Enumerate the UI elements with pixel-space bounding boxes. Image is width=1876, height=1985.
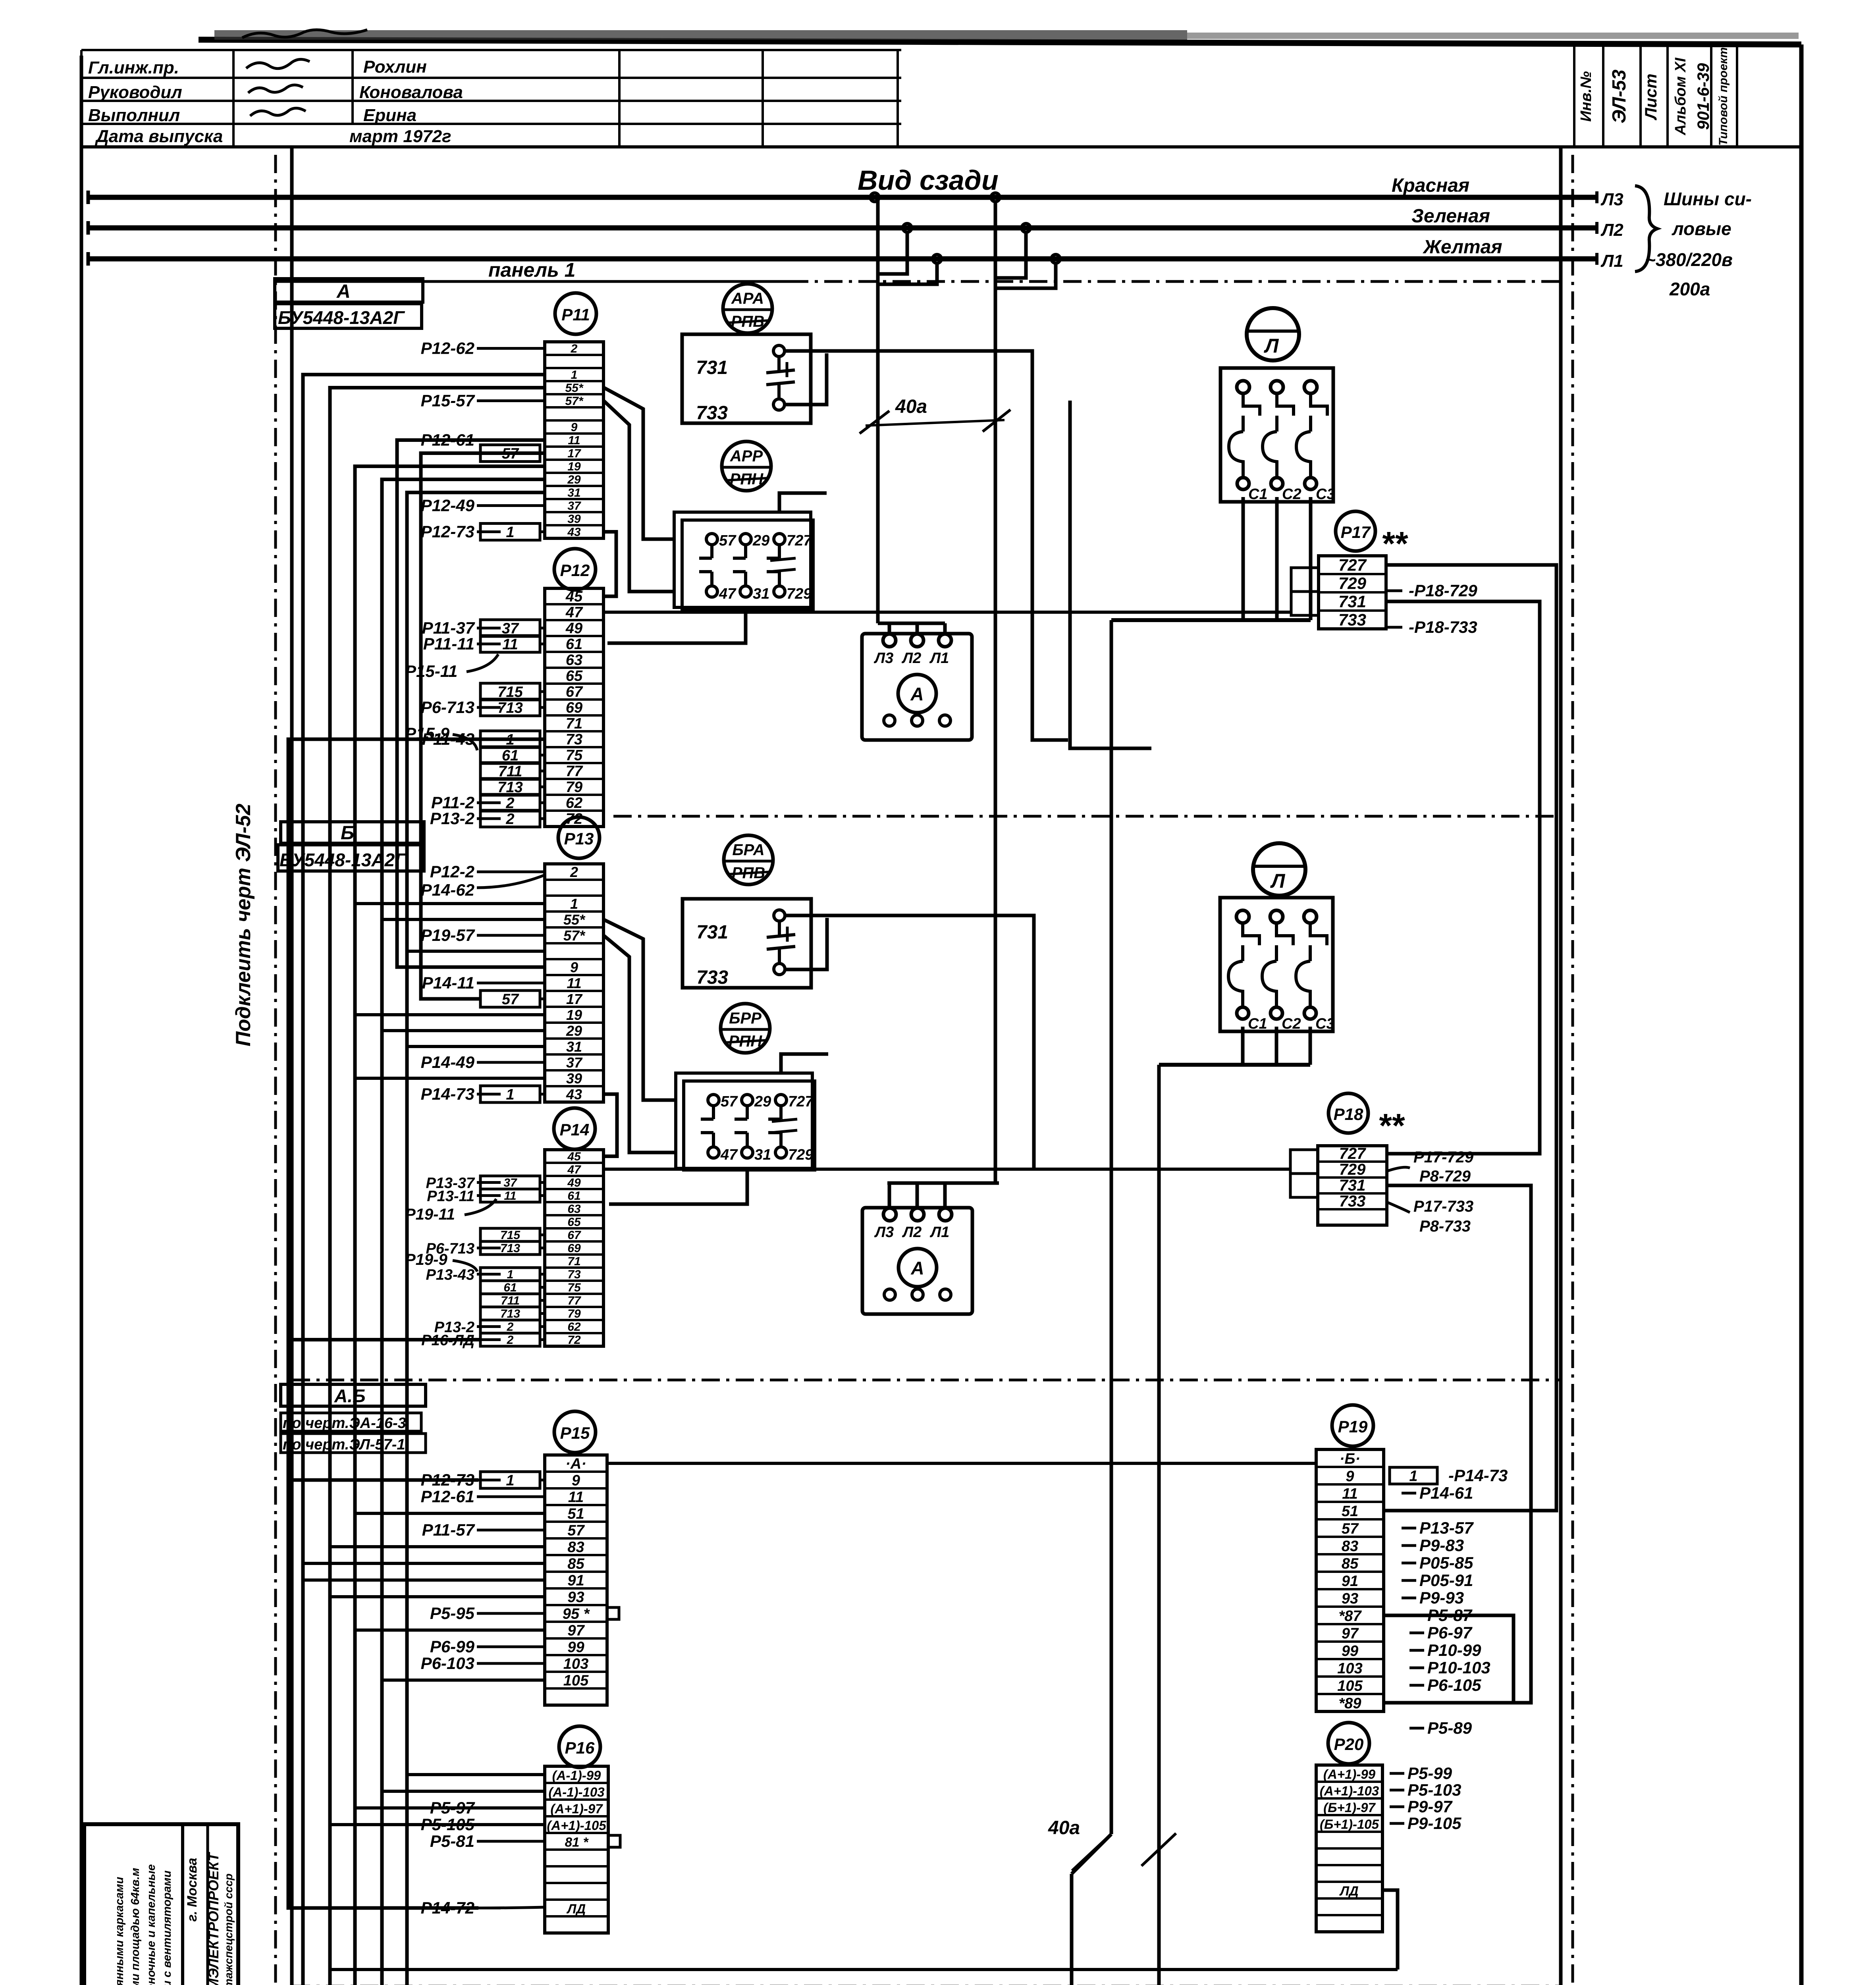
svg-text:901-6-39: 901-6-39 — [1694, 63, 1712, 130]
svg-text:Подклеить черт ЭЛ-52: Подклеить черт ЭЛ-52 — [232, 804, 255, 1046]
svg-text:Р16: Р16 — [565, 1738, 595, 1757]
svg-text:(Б+1)-105: (Б+1)-105 — [1320, 1817, 1379, 1831]
svg-text:Градирни с вентиляторами: Градирни с вентиляторами — [161, 1870, 174, 1985]
svg-text:Зеленая: Зеленая — [1411, 206, 1490, 227]
svg-text:103: 103 — [1337, 1660, 1362, 1677]
svg-text:715: 715 — [500, 1229, 521, 1242]
svg-text:1в-25. Пленочные и капельные: 1в-25. Пленочные и капельные — [145, 1864, 158, 1985]
svg-text:73: 73 — [567, 1268, 581, 1281]
svg-text:40а: 40а — [1048, 1817, 1080, 1839]
svg-text:85: 85 — [1342, 1555, 1359, 1572]
svg-text:Р19-11: Р19-11 — [405, 1206, 455, 1223]
svg-text:47: 47 — [565, 604, 583, 621]
svg-text:9: 9 — [570, 959, 578, 975]
svg-text:Р17-729: Р17-729 — [1413, 1149, 1474, 1166]
svg-text:Р6-103: Р6-103 — [421, 1654, 474, 1673]
svg-text:БРР: БРР — [729, 1010, 762, 1027]
svg-text:С3: С3 — [1315, 1016, 1335, 1032]
svg-text:Р13: Р13 — [564, 829, 594, 848]
svg-text:61: 61 — [503, 1281, 517, 1294]
svg-text:(А-1)-103: (А-1)-103 — [548, 1785, 604, 1799]
svg-text:(Б+1)-97: (Б+1)-97 — [1323, 1800, 1376, 1815]
svg-text:40а: 40а — [895, 396, 927, 417]
svg-text:ЛД: ЛД — [1339, 1883, 1359, 1898]
svg-text:Л2: Л2 — [902, 1224, 922, 1241]
svg-text:Красная: Красная — [1392, 175, 1469, 196]
svg-text:91: 91 — [567, 1572, 584, 1589]
svg-text:Б: Б — [341, 823, 354, 844]
svg-text:9: 9 — [571, 421, 578, 434]
svg-text:29: 29 — [752, 532, 769, 549]
svg-text:61: 61 — [566, 636, 582, 653]
svg-text:Альбом XI: Альбом XI — [1672, 57, 1689, 135]
svg-text:713: 713 — [500, 1307, 520, 1320]
svg-text:79: 79 — [566, 779, 582, 796]
svg-text:с секциями площадью 64кв.м: с секциями площадью 64кв.м — [129, 1868, 142, 1985]
svg-text:Р14: Р14 — [560, 1120, 590, 1139]
svg-text:(А-1)-99: (А-1)-99 — [552, 1768, 601, 1783]
svg-text:ЭЛ-53: ЭЛ-53 — [1609, 69, 1630, 123]
svg-text:47: 47 — [567, 1163, 581, 1176]
svg-text:Р05-91: Р05-91 — [1419, 1571, 1473, 1590]
svg-text:63: 63 — [567, 1203, 581, 1216]
svg-text:55*: 55* — [565, 382, 583, 395]
svg-text:март 1972г: март 1972г — [349, 127, 451, 146]
svg-text:Р5-103: Р5-103 — [1407, 1781, 1461, 1799]
svg-text:(А+1)-103: (А+1)-103 — [1320, 1783, 1379, 1798]
svg-text:Р05-85: Р05-85 — [1419, 1553, 1473, 1572]
svg-text:51: 51 — [1342, 1503, 1358, 1520]
svg-text:Р14-49: Р14-49 — [421, 1053, 475, 1072]
svg-text:729: 729 — [1339, 1161, 1366, 1178]
svg-text:91: 91 — [1342, 1573, 1358, 1590]
svg-text:71: 71 — [567, 1255, 580, 1268]
svg-text:Р15-11: Р15-11 — [405, 662, 457, 680]
svg-text:Р15-57: Р15-57 — [421, 391, 475, 410]
svg-text:~380/220в: ~380/220в — [1645, 249, 1733, 270]
svg-text:97: 97 — [567, 1622, 585, 1639]
svg-text:Л: Л — [1270, 870, 1286, 892]
svg-text:105: 105 — [1337, 1678, 1363, 1694]
svg-text:Р14-73: Р14-73 — [421, 1085, 474, 1103]
svg-text:37: 37 — [567, 499, 581, 513]
svg-text:ловые: ловые — [1672, 218, 1731, 239]
svg-text:·А·: ·А· — [565, 1455, 586, 1472]
svg-text:Р12: Р12 — [560, 561, 590, 580]
svg-text:Р17-733: Р17-733 — [1413, 1198, 1473, 1215]
svg-text:85: 85 — [567, 1555, 584, 1572]
svg-text:105: 105 — [563, 1672, 589, 1689]
svg-text:11: 11 — [1342, 1486, 1357, 1502]
svg-text:Р14-61: Р14-61 — [1419, 1484, 1473, 1502]
svg-text:733: 733 — [1339, 1193, 1366, 1210]
svg-text:С1: С1 — [1248, 486, 1268, 503]
svg-text:(А+1)-97: (А+1)-97 — [550, 1801, 603, 1816]
svg-text:713: 713 — [500, 1242, 520, 1255]
svg-text:1: 1 — [506, 524, 514, 541]
svg-text:Лист: Лист — [1641, 73, 1660, 120]
svg-text:11: 11 — [568, 1489, 584, 1505]
svg-text:Р5-81: Р5-81 — [430, 1832, 474, 1850]
svg-text:-Р14-73: -Р14-73 — [1448, 1466, 1508, 1485]
svg-text:А: А — [336, 281, 351, 302]
svg-text:Р11: Р11 — [561, 305, 590, 324]
svg-text:Р12-49: Р12-49 — [421, 496, 475, 515]
svg-text:29: 29 — [566, 1023, 582, 1039]
svg-text:Шины си-: Шины си- — [1664, 189, 1752, 209]
svg-text:С1: С1 — [1248, 1016, 1267, 1032]
svg-text:713: 713 — [497, 700, 523, 716]
svg-text:Р6-99: Р6-99 — [430, 1637, 475, 1656]
svg-text:Ерина: Ерина — [363, 106, 416, 125]
svg-text:(А+1)-99: (А+1)-99 — [1323, 1767, 1376, 1781]
svg-text:61: 61 — [567, 1189, 580, 1203]
svg-text:43: 43 — [567, 526, 581, 539]
svg-text:С2: С2 — [1282, 1016, 1301, 1032]
svg-text:69: 69 — [566, 700, 582, 716]
svg-text:727: 727 — [787, 532, 812, 549]
svg-text:711: 711 — [501, 1294, 520, 1307]
svg-text:43: 43 — [566, 1086, 582, 1102]
svg-text:31: 31 — [753, 586, 769, 602]
svg-text:39: 39 — [567, 513, 581, 526]
svg-text:Р11-11: Р11-11 — [423, 634, 474, 653]
svg-text:Рохлин: Рохлин — [363, 57, 427, 77]
svg-text:65: 65 — [566, 668, 583, 684]
svg-text:51: 51 — [567, 1505, 584, 1522]
svg-text:Р12-62: Р12-62 — [421, 339, 474, 358]
svg-text:62: 62 — [567, 1320, 581, 1334]
svg-text:2: 2 — [505, 811, 514, 827]
svg-text:731: 731 — [1338, 592, 1366, 611]
svg-text:Л2: Л2 — [1600, 220, 1623, 240]
svg-text:(А+1)-105: (А+1)-105 — [547, 1818, 606, 1833]
svg-text:62: 62 — [566, 795, 582, 811]
svg-text:11: 11 — [567, 975, 581, 991]
svg-text:БУ5448-13А2Г: БУ5448-13А2Г — [280, 850, 407, 870]
svg-text:39: 39 — [566, 1070, 582, 1087]
svg-text:Р15: Р15 — [560, 1424, 590, 1442]
svg-text:С2: С2 — [1282, 486, 1301, 503]
svg-text:1: 1 — [506, 1472, 514, 1489]
svg-text:Выполнил: Выполнил — [88, 106, 180, 125]
svg-text:-Р18-733: -Р18-733 — [1409, 618, 1477, 636]
svg-text:57: 57 — [721, 1093, 738, 1110]
svg-text:72: 72 — [567, 1334, 581, 1347]
svg-text:31: 31 — [754, 1147, 771, 1163]
svg-text:Р12-2: Р12-2 — [430, 862, 474, 881]
svg-text:733: 733 — [696, 403, 728, 424]
svg-text:31: 31 — [567, 486, 580, 499]
svg-text:1: 1 — [506, 1086, 514, 1103]
svg-text:2: 2 — [507, 1334, 514, 1347]
svg-text:65: 65 — [567, 1216, 581, 1229]
svg-text:9: 9 — [1346, 1468, 1354, 1485]
svg-text:45: 45 — [567, 1150, 581, 1163]
svg-text:97: 97 — [1342, 1625, 1359, 1642]
svg-text:77: 77 — [566, 763, 583, 780]
svg-text:731: 731 — [696, 357, 728, 378]
svg-text:*87: *87 — [1338, 1608, 1362, 1625]
svg-text:729: 729 — [788, 1147, 813, 1163]
svg-text:Р19-9: Р19-9 — [405, 1251, 447, 1268]
svg-text:Р12-73: Р12-73 — [421, 522, 474, 541]
svg-text:57: 57 — [719, 532, 737, 549]
svg-text:Р10-103: Р10-103 — [1427, 1658, 1490, 1677]
svg-text:79: 79 — [567, 1307, 581, 1320]
svg-text:БРА: БРА — [732, 841, 764, 859]
svg-text:Р10-99: Р10-99 — [1427, 1641, 1481, 1659]
svg-text:29: 29 — [567, 473, 581, 486]
svg-text:Р6-713: Р6-713 — [421, 698, 474, 717]
svg-text:9: 9 — [572, 1472, 580, 1489]
svg-text:2: 2 — [571, 342, 578, 355]
svg-text:95 *: 95 * — [563, 1605, 590, 1622]
svg-text:Дата выпуска: Дата выпуска — [94, 127, 223, 146]
svg-text:69: 69 — [567, 1242, 581, 1255]
svg-text:Р12-61: Р12-61 — [421, 1487, 474, 1506]
svg-text:81 *: 81 * — [565, 1835, 589, 1849]
svg-text:83: 83 — [567, 1539, 584, 1555]
svg-text:2: 2 — [507, 1320, 514, 1334]
svg-text:63: 63 — [566, 652, 582, 669]
svg-text:57: 57 — [1342, 1521, 1359, 1537]
svg-text:731: 731 — [1339, 1177, 1366, 1194]
svg-text:Р13-2: Р13-2 — [430, 809, 474, 828]
svg-text:45: 45 — [565, 588, 583, 605]
svg-text:Р8-729: Р8-729 — [1419, 1168, 1471, 1185]
svg-text:Л3: Л3 — [874, 1224, 894, 1241]
svg-text:77: 77 — [567, 1294, 581, 1307]
svg-text:Минмонтажспецстрой ссср: Минмонтажспецстрой ссср — [222, 1873, 235, 1985]
svg-text:11: 11 — [504, 1189, 516, 1203]
svg-text:1: 1 — [507, 1268, 514, 1281]
svg-text:Р19-57: Р19-57 — [421, 926, 475, 944]
svg-text:АРР: АРР — [730, 447, 763, 465]
svg-text:75: 75 — [566, 747, 583, 764]
svg-text:АРА: АРА — [731, 290, 764, 307]
svg-text:37: 37 — [503, 1176, 517, 1189]
svg-text:Р17: Р17 — [1341, 523, 1371, 542]
svg-text:Р5-89: Р5-89 — [1427, 1719, 1472, 1737]
svg-text:Р6-105: Р6-105 — [1427, 1676, 1481, 1694]
svg-text:57*: 57* — [565, 395, 583, 408]
svg-text:49: 49 — [565, 620, 582, 637]
svg-text:Л3: Л3 — [873, 650, 893, 667]
svg-text:Р11-57: Р11-57 — [422, 1521, 475, 1539]
svg-text:Л1: Л1 — [929, 650, 949, 667]
svg-text:67: 67 — [566, 684, 583, 700]
svg-text:17: 17 — [566, 991, 583, 1007]
svg-text:Желтая: Желтая — [1422, 237, 1502, 258]
svg-text:с деревянными каркасами: с деревянными каркасами — [113, 1877, 126, 1985]
svg-text:Р20: Р20 — [1334, 1735, 1364, 1754]
svg-text:729: 729 — [787, 586, 812, 602]
svg-text:57: 57 — [502, 991, 519, 1008]
svg-text:Л1: Л1 — [1600, 251, 1623, 271]
svg-text:93: 93 — [567, 1589, 584, 1605]
svg-text:200а: 200а — [1669, 279, 1710, 299]
svg-text:Р14-62: Р14-62 — [421, 881, 474, 899]
svg-text:Р13-11: Р13-11 — [427, 1188, 474, 1205]
svg-text:·Б·: ·Б· — [1340, 1451, 1360, 1467]
svg-text:103: 103 — [563, 1655, 588, 1672]
svg-text:Р5-99: Р5-99 — [1407, 1764, 1452, 1783]
svg-text:Р9-105: Р9-105 — [1407, 1814, 1461, 1833]
svg-text:Р13-57: Р13-57 — [1419, 1519, 1474, 1537]
svg-text:-Р18-729: -Р18-729 — [1409, 581, 1477, 600]
svg-text:Р9-83: Р9-83 — [1419, 1536, 1464, 1555]
svg-text:Л3: Л3 — [1600, 190, 1623, 209]
svg-text:Инв.№: Инв.№ — [1578, 71, 1595, 121]
svg-text:Р18: Р18 — [1334, 1105, 1363, 1124]
svg-text:57: 57 — [567, 1522, 585, 1539]
svg-text:727: 727 — [788, 1093, 814, 1110]
svg-text:Р5-95: Р5-95 — [430, 1604, 475, 1623]
svg-text:г. Москва: г. Москва — [185, 1858, 200, 1922]
svg-text:БУ5448-13А2Г: БУ5448-13А2Г — [278, 307, 405, 328]
svg-text:Типовой проект: Типовой проект — [1717, 47, 1730, 146]
svg-text:11: 11 — [502, 636, 518, 653]
svg-text:Р14-11: Р14-11 — [422, 973, 474, 992]
svg-text:71: 71 — [566, 715, 582, 732]
svg-text:47: 47 — [720, 1147, 738, 1163]
svg-text:Р8-733: Р8-733 — [1419, 1218, 1471, 1235]
svg-text:Л1: Л1 — [929, 1224, 949, 1241]
svg-text:Гл.инж.пр.: Гл.инж.пр. — [88, 58, 179, 77]
svg-text:1: 1 — [571, 368, 578, 382]
svg-text:55*: 55* — [563, 912, 586, 928]
svg-text:**: ** — [1378, 1107, 1405, 1144]
svg-text:Л: Л — [1264, 335, 1279, 357]
svg-text:Р9-93: Р9-93 — [1419, 1588, 1464, 1607]
svg-text:Коновалова: Коновалова — [359, 83, 463, 102]
svg-text:Р19: Р19 — [1338, 1417, 1368, 1436]
svg-text:47: 47 — [719, 586, 737, 602]
svg-text:67: 67 — [567, 1229, 581, 1242]
svg-text:Вид сзади: Вид сзади — [858, 165, 999, 196]
svg-text:729: 729 — [1338, 574, 1367, 593]
svg-text:99: 99 — [567, 1639, 584, 1655]
svg-text:31: 31 — [566, 1039, 582, 1055]
svg-text:Р6-97: Р6-97 — [1427, 1623, 1473, 1642]
svg-text:733: 733 — [1338, 611, 1366, 629]
svg-text:1: 1 — [570, 896, 578, 912]
svg-text:*89: *89 — [1338, 1695, 1361, 1712]
svg-text:А: А — [910, 684, 924, 704]
svg-text:панель 1: панель 1 — [488, 259, 575, 281]
svg-text:83: 83 — [1342, 1538, 1358, 1555]
svg-text:Р5-87: Р5-87 — [1427, 1606, 1473, 1625]
svg-text:727: 727 — [1338, 556, 1367, 574]
svg-text:1: 1 — [1409, 1468, 1417, 1484]
svg-text:11: 11 — [568, 434, 580, 447]
svg-text:С3: С3 — [1316, 486, 1335, 503]
svg-text:17: 17 — [567, 447, 581, 460]
svg-text:73: 73 — [566, 731, 582, 748]
svg-text:Руководил: Руководил — [88, 83, 182, 102]
svg-text:ЛД: ЛД — [567, 1901, 586, 1916]
svg-text:727: 727 — [1339, 1145, 1366, 1162]
svg-text:733: 733 — [696, 967, 728, 988]
svg-text:А.Б: А.Б — [334, 1386, 366, 1406]
svg-text:Р13-43: Р13-43 — [426, 1267, 474, 1284]
svg-text:37: 37 — [566, 1054, 583, 1071]
svg-text:75: 75 — [567, 1281, 581, 1294]
svg-text:Р9-97: Р9-97 — [1407, 1797, 1453, 1816]
svg-text:2: 2 — [570, 864, 578, 880]
svg-text:19: 19 — [567, 460, 581, 473]
svg-text:49: 49 — [567, 1176, 581, 1189]
svg-text:Л2: Л2 — [901, 650, 921, 667]
svg-text:731: 731 — [696, 922, 728, 943]
svg-text:99: 99 — [1342, 1643, 1358, 1659]
svg-text:А: А — [910, 1258, 924, 1278]
svg-text:93: 93 — [1342, 1590, 1358, 1607]
svg-text:29: 29 — [754, 1093, 771, 1110]
svg-text:57*: 57* — [563, 927, 586, 944]
svg-text:по черт.ЭЛ-57-1: по черт.ЭЛ-57-1 — [283, 1436, 405, 1453]
svg-text:ТЯЖПРОМЭЛЕКТРОПРОЕКТ: ТЯЖПРОМЭЛЕКТРОПРОЕКТ — [205, 1852, 222, 1985]
svg-text:19: 19 — [566, 1007, 582, 1023]
